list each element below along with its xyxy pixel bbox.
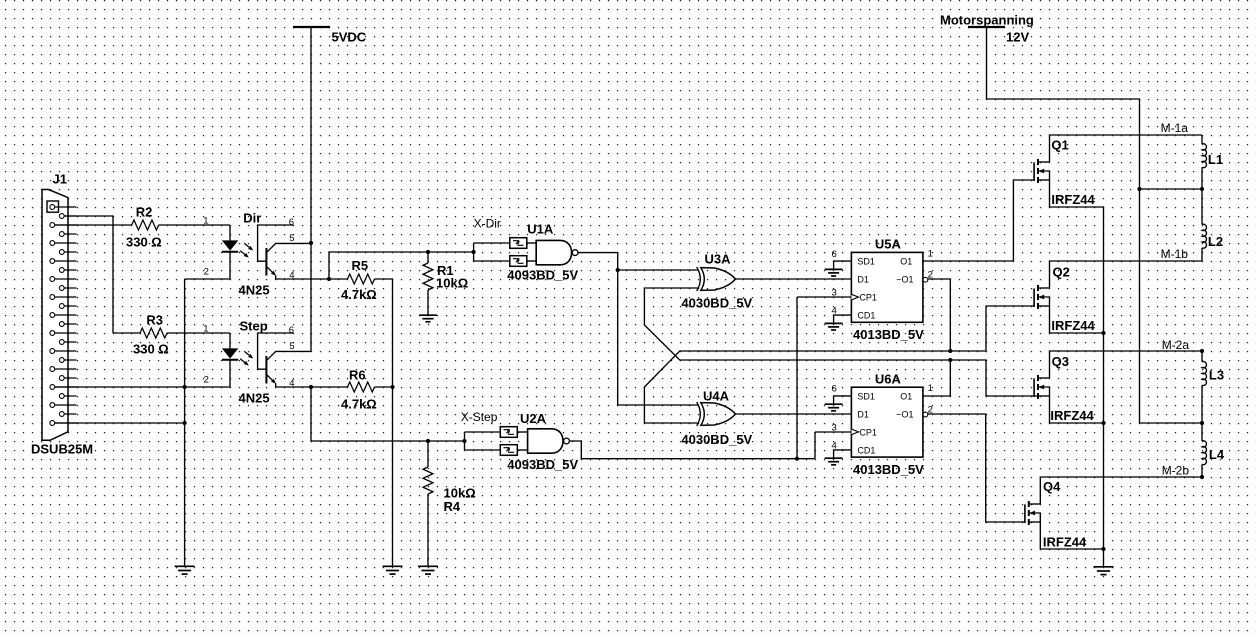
svg-text:4030BD_5V: 4030BD_5V xyxy=(681,432,752,447)
svg-text:10kΩ: 10kΩ xyxy=(436,276,468,291)
svg-text:CP1: CP1 xyxy=(859,427,877,437)
svg-text:330 Ω: 330 Ω xyxy=(126,234,162,249)
svg-text:2: 2 xyxy=(204,375,209,386)
svg-text:4: 4 xyxy=(289,378,294,389)
svg-text:L4: L4 xyxy=(1209,447,1225,462)
svg-text:U4A: U4A xyxy=(703,388,730,403)
svg-text:O1: O1 xyxy=(900,391,912,401)
svg-text:SD1: SD1 xyxy=(857,391,875,401)
svg-text:Q4: Q4 xyxy=(1043,479,1061,494)
svg-text:L3: L3 xyxy=(1209,368,1224,383)
svg-text:L2: L2 xyxy=(1208,234,1223,249)
svg-text:Motorspanning: Motorspanning xyxy=(940,13,1034,28)
svg-text:SD1: SD1 xyxy=(857,257,875,267)
svg-text:J1: J1 xyxy=(53,172,67,187)
svg-text:CP1: CP1 xyxy=(859,293,877,303)
svg-text:U6A: U6A xyxy=(875,371,902,386)
svg-text:330 Ω: 330 Ω xyxy=(133,341,169,356)
svg-text:R4: R4 xyxy=(444,499,461,514)
svg-text:U1A: U1A xyxy=(527,222,554,237)
svg-text:X-Dir: X-Dir xyxy=(474,216,501,230)
svg-text:Q1: Q1 xyxy=(1051,137,1068,152)
svg-text:4013BD_5V: 4013BD_5V xyxy=(853,462,924,477)
svg-text:R5: R5 xyxy=(352,258,369,273)
svg-text:4N25: 4N25 xyxy=(239,283,270,298)
svg-text:1: 1 xyxy=(203,324,208,335)
svg-text:4N25: 4N25 xyxy=(239,391,270,406)
svg-text:IRFZ44: IRFZ44 xyxy=(1051,318,1095,333)
svg-text:4.7kΩ: 4.7kΩ xyxy=(341,396,377,411)
svg-text:6: 6 xyxy=(832,384,837,395)
svg-text:D1: D1 xyxy=(857,275,869,285)
svg-text:M-1a: M-1a xyxy=(1161,121,1189,135)
svg-text:R2: R2 xyxy=(136,205,153,220)
svg-text:L1: L1 xyxy=(1208,152,1223,167)
svg-text:12V: 12V xyxy=(1006,30,1029,45)
svg-text:6: 6 xyxy=(289,217,294,228)
svg-text:IRFZ44: IRFZ44 xyxy=(1043,534,1087,549)
svg-text:U3A: U3A xyxy=(705,251,732,266)
svg-text:O1: O1 xyxy=(900,257,912,267)
svg-text:Q2: Q2 xyxy=(1053,264,1070,279)
svg-text:R3: R3 xyxy=(146,313,163,328)
svg-text:4.7kΩ: 4.7kΩ xyxy=(341,287,377,302)
svg-text:4093BD_5V: 4093BD_5V xyxy=(507,268,578,283)
svg-text:M-1b: M-1b xyxy=(1161,247,1189,261)
svg-text:4: 4 xyxy=(289,270,294,281)
svg-text:1: 1 xyxy=(928,383,933,394)
svg-text:M-2a: M-2a xyxy=(1162,338,1190,352)
svg-text:D1: D1 xyxy=(857,409,869,419)
svg-text:DSUB25M: DSUB25M xyxy=(31,442,93,457)
svg-text:IRFZ44: IRFZ44 xyxy=(1051,192,1095,207)
svg-text:4: 4 xyxy=(832,440,837,451)
svg-text:X-Step: X-Step xyxy=(461,410,498,424)
svg-text:CD1: CD1 xyxy=(857,445,875,455)
svg-text:M-2b: M-2b xyxy=(1162,464,1190,478)
svg-text:4030BD_5V: 4030BD_5V xyxy=(681,296,752,311)
svg-text:4013BD_5V: 4013BD_5V xyxy=(853,327,924,342)
svg-text:Q3: Q3 xyxy=(1052,354,1069,369)
svg-text:4093BD_5V: 4093BD_5V xyxy=(507,457,578,472)
svg-text:5VDC: 5VDC xyxy=(332,30,367,45)
svg-text:CD1: CD1 xyxy=(857,311,875,321)
svg-text:IRFZ44: IRFZ44 xyxy=(1050,408,1094,423)
svg-text:Dir: Dir xyxy=(243,211,261,226)
svg-text:2: 2 xyxy=(204,267,209,278)
svg-text:U2A: U2A xyxy=(520,411,547,426)
svg-text:4: 4 xyxy=(832,306,837,317)
svg-text:1: 1 xyxy=(928,248,933,259)
svg-text:1: 1 xyxy=(203,216,208,227)
svg-text:6: 6 xyxy=(832,249,837,260)
svg-text:U5A: U5A xyxy=(875,237,902,252)
svg-text:6: 6 xyxy=(289,325,294,336)
svg-text:5: 5 xyxy=(289,341,294,352)
svg-text:~O1: ~O1 xyxy=(896,275,913,285)
svg-text:5: 5 xyxy=(289,233,294,244)
svg-text:R6: R6 xyxy=(349,367,366,382)
svg-text:Step: Step xyxy=(240,319,268,334)
svg-text:~O1: ~O1 xyxy=(896,409,913,419)
